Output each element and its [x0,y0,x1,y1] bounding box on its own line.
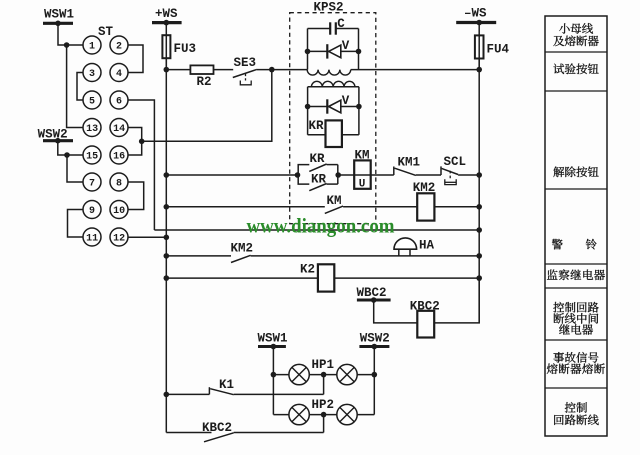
switch ST contact circles 1-16 (pin numbers) [83,36,101,54]
legend text: jiechu anniu [553,167,564,178]
svg-text:KR: KR [310,152,326,166]
svg-text:R2: R2 [197,75,212,89]
svg-text:V: V [342,39,350,53]
wire WSW2 to contact 15 [58,141,83,155]
svg-text:WSW2: WSW2 [360,332,390,346]
wire KM2 coil to right bus [434,206,479,208]
svg-text:KM2: KM2 [413,181,436,195]
svg-text:KPS2: KPS2 [314,1,344,15]
svg-text:V: V [342,94,350,108]
svg-text:KBC2: KBC2 [410,300,440,314]
svg-text:www.diangon.com: www.diangon.com [247,214,395,238]
relay coil KR (KPS2) [308,134,326,136]
svg-text:C: C [337,17,345,31]
lamp HP1 (right bulb) [337,364,357,384]
node junction left bus / K2 row [164,275,170,281]
node junction left bus / KM row [164,204,170,210]
node junction left bus / KM2 contact row [164,253,170,259]
capacitor C [308,28,331,30]
wire WBC2 to KBC2 coil [374,300,418,323]
svg-text:13: 13 [86,124,98,135]
svg-text:K2: K2 [300,263,315,277]
svg-text:5: 5 [89,97,95,108]
svg-text:9: 9 [89,206,95,217]
wire right vertical bus [478,59,480,323]
svg-text:4: 4 [116,69,122,80]
node junction on wire to contact 15 [64,152,70,158]
wire HP2 row right corner [357,414,374,416]
relay module KPS2 (dashed boundary) [290,13,376,224]
node junction HP2 midpoint [321,412,327,418]
legend column frame [545,16,607,436]
wire SCL to -WS bus [458,174,479,176]
resistor R2 [190,65,213,74]
wire primary left vertical (to C/V branch) [307,29,309,70]
wire HP1 midpoint down to K1 row [323,375,325,395]
fuse FU4 [478,23,480,70]
svg-text:KM2: KM2 [231,242,254,256]
node junction bell row / right bus [476,253,482,259]
node junction common row / right bus [476,227,482,233]
legend text: xiaomuxian ji rongduanqi [559,23,569,33]
legend text: jing ling [552,239,563,250]
wire HP2 row left corner [273,414,289,416]
svg-text:ST: ST [98,25,114,39]
fuse FU3 [165,23,167,70]
wire contact-6 common row to right bus [154,229,479,231]
svg-text:WBC2: WBC2 [357,286,387,300]
node junction WSW2 column / HP1 row [372,372,378,378]
svg-text:7: 7 [89,179,95,190]
wire KM1 to SCL [416,174,441,176]
node junction FU4 / primary row [476,67,482,73]
wire HP1 row right [357,374,374,376]
lamp HP2 (right bulb) [337,404,357,424]
wire KM coil to KM1 [371,174,394,176]
wire secondary left vertical [307,87,309,135]
svg-text:WSW1: WSW1 [258,332,288,346]
wire HP2 midpoint down to KBC2 contact row [323,415,325,433]
wire between HP2 bulbs [309,414,337,416]
svg-text:1: 1 [89,42,95,53]
wire left bus bottom corner to KBC2 contact [166,432,211,434]
lamp HP2 (left bulb) [289,404,309,424]
svg-text:SE3: SE3 [234,56,257,70]
svg-text:WSW1: WSW1 [44,8,74,22]
svg-text:15: 15 [86,152,98,163]
wire HP1 row left [273,374,289,376]
wire bracket contacts 9-11 [68,210,84,238]
wire bracket contacts 2-4 [128,45,143,73]
wire K1 to HP1 midpoint [234,393,324,395]
wire KM contact to KM2 coil [343,206,417,208]
contact KR (lower, parallel pair) [298,175,309,184]
svg-text:KR: KR [311,172,327,186]
contactor coil KM (with U voltage element) [354,160,371,188]
node junction contact-12 / left bus [164,235,170,241]
node junction left bus / KR row [164,172,170,178]
svg-text:10: 10 [113,206,125,217]
svg-text:–WS: –WS [464,7,487,21]
node junction HP1 midpoint [321,372,327,378]
node junction on wire to contact 1 [64,42,70,48]
lamp HP1 (left bulb) [289,364,309,384]
node KR parallel left junction [295,172,301,178]
transformer secondary winding (KPS2) [308,86,359,88]
legend text: shigu xinhao rongduanqi rongduan [553,352,564,363]
wire WSW2 down lamp column [373,347,375,415]
svg-text:KM1: KM1 [398,156,421,170]
node junction SE3 output / bracket-14-16 branch [269,67,275,73]
wire KBC2 contact to HP2 midpoint [234,432,324,434]
wire left bus to K1 [166,393,209,395]
wire WSW1 down lamp column [272,347,274,415]
legend text: jiancha jidianqi [547,270,558,280]
wire primary right vertical (to C/V branch) [358,29,360,70]
wire left bus to KR contacts [166,174,297,176]
wire contact 12 to +WS bus [128,236,166,238]
legend text: kongzhi huilu duanxian [565,402,576,413]
wire bracket contacts 8-10 [128,182,144,210]
wire K2 coil to right bus [334,277,479,279]
diode V (lower) [308,106,359,108]
wire secondary right vertical [358,87,360,135]
wire left bus to K2 coil [166,277,318,279]
wire between HP1 bulbs [309,374,337,376]
svg-text:3: 3 [89,69,95,80]
svg-text:12: 12 [113,234,125,245]
wire KR contacts to KM coil [338,174,354,176]
svg-text:16: 16 [113,152,125,163]
node junction left bus / K1 row [164,392,170,398]
wire junction down to contact 7 [67,155,83,182]
wire left bus to KM contact [166,206,324,208]
node junction K2 / right bus [476,275,482,281]
node tap on bracket 14-16 [139,139,145,145]
wire junction down to contact 13 [67,45,83,128]
wire bracket contacts 3-5 [77,73,83,101]
node junction KM2 coil / right bus [476,204,482,210]
wire KM2 contact to bell HA [251,255,480,257]
node junction SCL / right bus [476,172,482,178]
legend text: kongzhi huilu duanxian zhongjian jidianqi [553,302,564,313]
svg-text:K1: K1 [219,378,234,392]
wire left vertical bus from FU3 down to bottom row [165,58,167,432]
svg-text:FU4: FU4 [487,43,510,57]
svg-text:2: 2 [116,42,122,53]
svg-text:11: 11 [86,234,98,245]
relay coil KBC2 [417,311,434,338]
svg-text:6: 6 [116,97,122,108]
relay coil K2 [318,264,334,291]
wire R2 to SE3 [214,69,234,71]
svg-text:U: U [359,179,366,191]
wire left bus to KM2 contact [166,255,231,257]
transformer primary winding (KPS2) [307,70,351,75]
node junction WSW1 column / HP1 row [271,372,277,378]
svg-text:KM: KM [327,194,342,208]
wire contact 6 down to alarm common row [128,100,154,230]
node junction FU3 / R2 row [164,67,170,73]
wire WSW1 to contact 1 [58,23,83,45]
svg-text:+WS: +WS [155,7,178,21]
svg-text:KR: KR [309,119,325,133]
wire SE3 to KPS2 primary [257,69,307,71]
wire bracket 14-16 tap to SE3 output [142,70,272,142]
svg-text:HA: HA [419,239,435,253]
contact KR (upper, parallel pair) [298,165,309,175]
svg-text:8: 8 [116,179,122,190]
wire KBC2 coil up to right bus [434,278,479,323]
svg-text:SCL: SCL [444,155,467,169]
relay coil KM2 [417,193,434,220]
svg-text:HP2: HP2 [312,398,335,412]
wire bracket contacts 14-16 [128,128,142,156]
legend text: shiyan anniu [553,64,564,74]
svg-text:KM: KM [355,149,370,163]
svg-text:FU3: FU3 [174,42,197,56]
node KR parallel right junction [335,172,341,178]
diode V (upper) [308,50,359,52]
svg-text:HP1: HP1 [312,358,335,372]
wire KPS2 primary to FU4 bus [351,69,480,71]
svg-text:14: 14 [113,124,125,135]
bell HA [398,249,400,256]
svg-text:KBC2: KBC2 [202,421,232,435]
wire FU3 junction to R2 [166,69,190,71]
